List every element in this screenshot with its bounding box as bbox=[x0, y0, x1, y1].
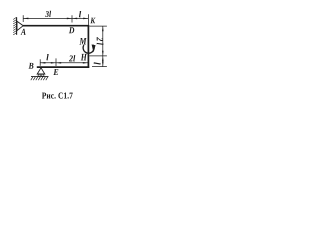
dim arrow D left side bbox=[67, 18, 72, 20]
extension at H level bbox=[89, 55, 107, 57]
dim arrow D right side bbox=[72, 18, 77, 20]
moment arc M bbox=[83, 45, 94, 53]
bottom beam B-H bbox=[37, 66, 89, 68]
roller circles bbox=[38, 74, 40, 76]
top dimension line bbox=[23, 14, 88, 25]
label H bbox=[81, 54, 87, 61]
arrowheads bbox=[23, 18, 103, 67]
extension tick at B bbox=[39, 59, 41, 66]
ground line bbox=[31, 76, 49, 78]
dim arrow E right side bbox=[56, 62, 61, 64]
label l right rotated bbox=[94, 62, 101, 64]
label 2l right rotated bbox=[97, 37, 104, 45]
wall at A bbox=[16, 17, 18, 35]
top beam A-K bbox=[23, 25, 89, 27]
label 2l bottom bbox=[69, 55, 75, 61]
caption Рис. С1.7 bbox=[42, 93, 73, 99]
dim arrow right mid (up) bbox=[102, 56, 104, 61]
right dimension line bbox=[89, 26, 107, 67]
extension tick at E bbox=[55, 58, 57, 66]
extension at bottom level bbox=[92, 66, 107, 68]
moment arc arrowhead bbox=[92, 44, 96, 52]
vertical beam K-H bbox=[87, 25, 89, 68]
extension tick at A bbox=[22, 15, 24, 22]
dim arrow H bottom bbox=[83, 62, 88, 64]
dim arrow right bottom (down) bbox=[102, 61, 104, 66]
bottom dimension line bbox=[40, 58, 88, 66]
label D bbox=[69, 27, 74, 33]
dim arrow K bbox=[83, 18, 88, 20]
dim arrow B bbox=[40, 62, 45, 64]
pin support A (triangle) bbox=[17, 21, 23, 30]
label M bbox=[79, 38, 86, 45]
background bbox=[0, 0, 110, 110]
label K bbox=[90, 18, 95, 24]
roller support B triangle bbox=[31, 68, 49, 80]
dim arrow right mid (down) bbox=[102, 51, 104, 56]
label E bbox=[53, 69, 58, 75]
label B bbox=[29, 63, 34, 69]
extension at K bbox=[87, 14, 89, 25]
extension tick at D bbox=[71, 15, 73, 22]
label A bbox=[21, 29, 26, 35]
label l bottom-left bbox=[46, 54, 48, 60]
dim arrow A left bbox=[23, 18, 28, 20]
wall hatching bbox=[13, 17, 16, 35]
dim arrow right top (up) bbox=[102, 26, 104, 31]
label 3l bbox=[45, 11, 51, 17]
label l top bbox=[79, 11, 81, 17]
extension at K level bbox=[90, 25, 107, 27]
dim arrow E left side bbox=[51, 62, 56, 64]
ground hatching bbox=[31, 77, 48, 81]
